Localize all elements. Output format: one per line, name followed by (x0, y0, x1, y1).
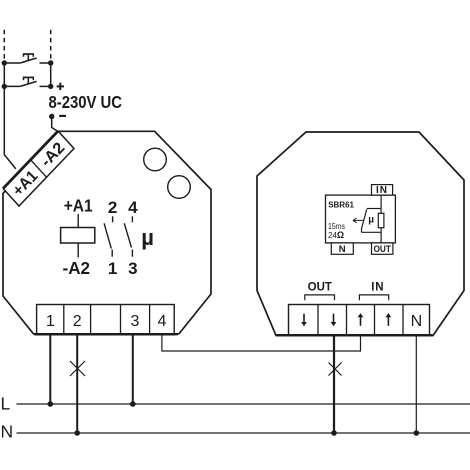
svg-text:1: 1 (46, 313, 55, 330)
contact 2-1 (104, 216, 113, 256)
module SBR61 box (326, 195, 396, 243)
node L terminal 3 (130, 401, 136, 407)
device 1 octagon bottom edge over strip (34, 333, 178, 335)
arrow up terminal 3 (358, 313, 364, 326)
svg-text:OUT: OUT (373, 244, 391, 254)
svg-text:N: N (1, 421, 14, 441)
wire N terminal to N (415, 336, 417, 434)
label + supply polarity (57, 83, 64, 90)
node junction dots pushbuttons (2, 60, 54, 89)
cross mark wire OUT (329, 363, 342, 376)
node - supply (49, 114, 54, 119)
svg-text:2: 2 (73, 313, 82, 330)
svg-text:24Ω: 24Ω (328, 230, 344, 240)
device 1 octagon housing (3, 131, 211, 333)
node L terminal 1 (48, 401, 54, 407)
svg-text:4: 4 (157, 313, 166, 330)
terminal strip OUT OUT IN IN N (289, 305, 430, 336)
arrow up terminal 4 (386, 313, 392, 326)
wire supply dashed lead right (50, 30, 52, 61)
svg-text:µ: µ (368, 215, 374, 226)
terminal block +A1 -A2 rotated (3, 131, 74, 206)
cross mark wire 2 (70, 361, 85, 376)
wire terminal 2 to N (76, 335, 78, 433)
wire module vertical IN-OUT (380, 195, 382, 243)
wire - node to terminal A2 (52, 119, 58, 132)
wire right supply column (50, 63, 52, 86)
svg-text:N: N (339, 244, 346, 255)
svg-text:µ: µ (141, 225, 154, 250)
bracket IN group (359, 295, 388, 300)
svg-text:4: 4 (128, 198, 138, 217)
line N (17, 432, 470, 434)
node N terminal 2 (74, 430, 80, 436)
svg-text:L: L (1, 393, 11, 413)
mounting hole 2 (168, 176, 191, 199)
pushbutton T1 (4, 54, 50, 63)
arrow down terminal 2 (331, 314, 337, 327)
port N box (331, 243, 353, 254)
svg-text:N: N (411, 313, 423, 330)
port IN box (372, 185, 393, 196)
node N wire OUT (331, 430, 337, 436)
wire supply dashed lead left (3, 30, 5, 61)
wire coil top lead (77, 214, 79, 228)
contact 4-3 (124, 216, 132, 256)
wire terminal 3 to L (132, 335, 134, 404)
svg-text:2: 2 (108, 198, 117, 217)
svg-text:IN: IN (376, 185, 388, 196)
line L (17, 403, 470, 405)
svg-text:IN: IN (371, 281, 384, 293)
arrow actuation module (353, 218, 364, 223)
wire terminal 1 to L (49, 335, 51, 404)
node N terminal N (414, 430, 420, 436)
svg-text:1: 1 (108, 259, 117, 278)
svg-text:-A2: -A2 (63, 258, 91, 278)
contact mu module (362, 209, 382, 233)
arrow down terminal 1 (301, 314, 307, 327)
wire left supply column (4, 63, 16, 169)
device 2 octagon housing (257, 132, 464, 336)
label - supply polarity (59, 115, 66, 117)
device 2 octagon bottom edge over strip (277, 334, 433, 336)
svg-text:8-230V UC: 8-230V UC (49, 92, 123, 112)
svg-text:+A1: +A1 (64, 196, 93, 216)
svg-text:SBR61: SBR61 (328, 201, 354, 210)
terminal strip 1 2 3 4 (37, 305, 175, 335)
svg-text:3: 3 (128, 259, 137, 278)
port OUT box (372, 243, 393, 254)
wire terminal 4 to IN (162, 335, 361, 351)
svg-text:OUT: OUT (308, 281, 332, 293)
wire OUT terminal to N (333, 336, 335, 434)
relay coil A1-A2 (61, 228, 95, 244)
svg-text:3: 3 (131, 313, 140, 330)
resistor 24 ohm (378, 213, 384, 227)
bracket OUT group (305, 295, 335, 300)
mounting hole 1 (144, 148, 167, 171)
pushbutton T2 (4, 77, 50, 86)
wire coil bottom lead (77, 243, 79, 258)
